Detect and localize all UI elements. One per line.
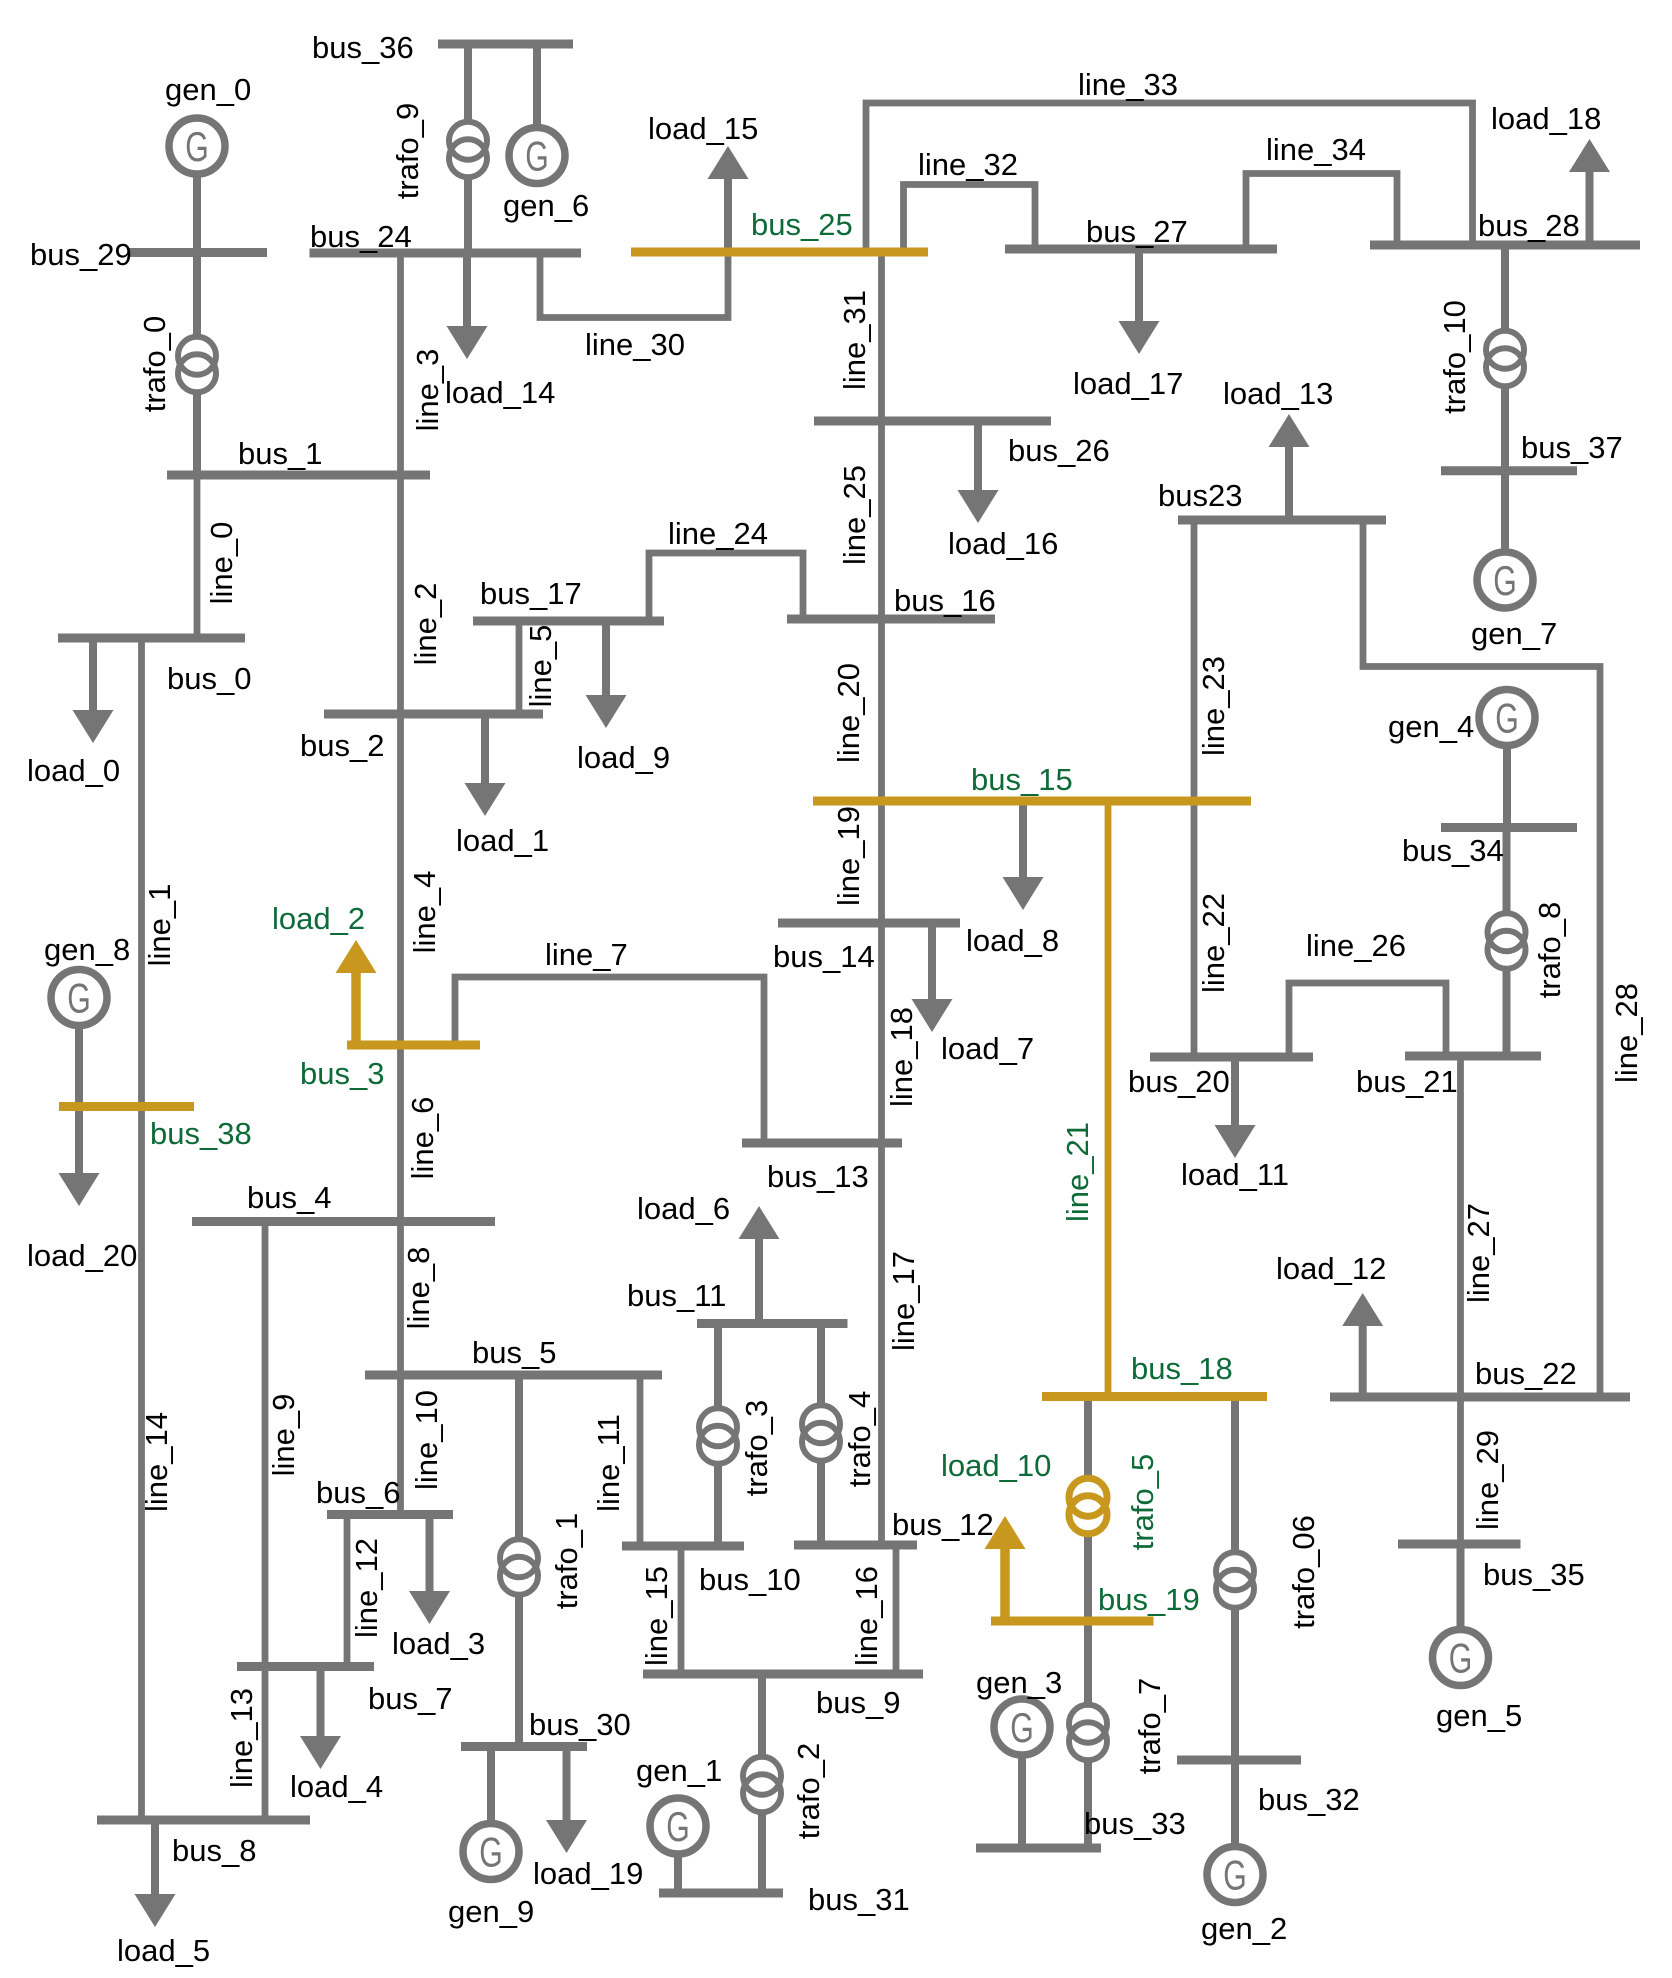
line line_22 bbox=[1194, 801, 1231, 1057]
load load_9 bbox=[577, 621, 670, 775]
svg-text:line_32: line_32 bbox=[918, 147, 1018, 182]
load load_2 bbox=[272, 901, 377, 1045]
svg-text:load_12: load_12 bbox=[1276, 1251, 1386, 1286]
svg-text:line_20: line_20 bbox=[831, 663, 866, 763]
svg-text:bus_35: bus_35 bbox=[1483, 1557, 1585, 1592]
svg-text:line_4: line_4 bbox=[407, 871, 442, 954]
transformer trafo_06 bbox=[1216, 1397, 1321, 1761]
bus bus_6 bbox=[316, 1475, 453, 1515]
svg-text:trafo_1: trafo_1 bbox=[549, 1513, 584, 1610]
load load_18 bbox=[1491, 101, 1610, 245]
load load_8 bbox=[966, 801, 1059, 958]
bus bus_7 bbox=[237, 1667, 452, 1717]
generator gen_9 bbox=[448, 1747, 534, 1930]
svg-text:G: G bbox=[1493, 557, 1517, 604]
svg-text:bus_2: bus_2 bbox=[300, 728, 384, 763]
generator gen_7 bbox=[1471, 471, 1557, 651]
bus bus_30 bbox=[461, 1707, 631, 1747]
load load_20 bbox=[27, 1107, 137, 1274]
svg-text:line_25: line_25 bbox=[837, 465, 872, 565]
line line_25 bbox=[837, 421, 882, 619]
bus bus_22 bbox=[1330, 1356, 1630, 1397]
line line_1 bbox=[142, 638, 178, 1106]
svg-text:bus_7: bus_7 bbox=[368, 1681, 452, 1716]
svg-text:line_30: line_30 bbox=[585, 327, 685, 362]
svg-text:bus_26: bus_26 bbox=[1008, 433, 1110, 468]
transformer trafo_7 bbox=[1069, 1621, 1167, 1848]
svg-text:G: G bbox=[1010, 1704, 1034, 1751]
svg-text:line_10: line_10 bbox=[409, 1390, 444, 1490]
bus bus_0 bbox=[58, 638, 251, 696]
line line_8 bbox=[401, 1222, 437, 1376]
line line_10 bbox=[401, 1375, 445, 1515]
svg-text:line_29: line_29 bbox=[1470, 1430, 1505, 1530]
load load_19 bbox=[533, 1747, 643, 1892]
svg-text:bus_10: bus_10 bbox=[699, 1562, 801, 1597]
bus bus_32 bbox=[1177, 1760, 1360, 1817]
svg-text:line_34: line_34 bbox=[1266, 132, 1366, 167]
svg-text:line_12: line_12 bbox=[349, 1538, 384, 1638]
line line_14 bbox=[139, 1106, 174, 1820]
generator gen_8 bbox=[44, 932, 130, 1107]
svg-text:line_19: line_19 bbox=[831, 806, 866, 906]
load load_12 bbox=[1276, 1251, 1386, 1396]
svg-text:line_7: line_7 bbox=[545, 937, 628, 972]
svg-text:bus_34: bus_34 bbox=[1402, 833, 1504, 868]
line line_27 bbox=[1461, 1056, 1497, 1397]
bus bus23 bbox=[1158, 478, 1386, 520]
bus bus_20 bbox=[1128, 1057, 1313, 1099]
line line_0 bbox=[197, 475, 239, 638]
bus bus_2 bbox=[300, 714, 543, 763]
bus bus_37 bbox=[1441, 430, 1623, 471]
bus bus_26 bbox=[814, 421, 1110, 468]
svg-text:trafo_06: trafo_06 bbox=[1286, 1515, 1321, 1629]
transformer trafo_1 bbox=[500, 1375, 584, 1747]
svg-text:G: G bbox=[1449, 1635, 1473, 1682]
svg-text:load_7: load_7 bbox=[941, 1031, 1034, 1066]
bus bus_28 bbox=[1370, 208, 1640, 245]
bus bus_19 bbox=[991, 1582, 1200, 1621]
svg-text:bus_9: bus_9 bbox=[816, 1685, 900, 1720]
svg-text:bus_28: bus_28 bbox=[1478, 208, 1580, 243]
generator gen_4 bbox=[1388, 690, 1535, 828]
svg-text:line_33: line_33 bbox=[1078, 67, 1178, 102]
load load_7 bbox=[912, 923, 1035, 1066]
line line_18 bbox=[882, 923, 920, 1143]
svg-text:bus_30: bus_30 bbox=[529, 1707, 631, 1742]
svg-text:gen_2: gen_2 bbox=[1201, 1911, 1287, 1946]
line line_30 bbox=[540, 252, 728, 362]
line line_21 bbox=[1060, 801, 1108, 1397]
generator gen_2 bbox=[1201, 1760, 1287, 1946]
bus bus_25 bbox=[631, 207, 928, 252]
svg-text:line_6: line_6 bbox=[405, 1097, 440, 1180]
svg-text:G: G bbox=[185, 123, 209, 170]
svg-text:line_2: line_2 bbox=[408, 583, 443, 666]
transformer trafo_5 bbox=[1069, 1397, 1160, 1621]
svg-text:line_23: line_23 bbox=[1196, 656, 1231, 756]
bus bus_12 bbox=[794, 1507, 994, 1545]
svg-text:gen_0: gen_0 bbox=[165, 72, 251, 107]
svg-text:bus_12: bus_12 bbox=[892, 1507, 994, 1542]
svg-text:line_27: line_27 bbox=[1461, 1203, 1496, 1303]
svg-text:bus_36: bus_36 bbox=[312, 30, 414, 65]
svg-text:bus_25: bus_25 bbox=[751, 207, 853, 242]
bus bus_17 bbox=[473, 576, 664, 621]
load load_13 bbox=[1223, 376, 1333, 521]
svg-text:trafo_9: trafo_9 bbox=[390, 103, 425, 200]
transformer trafo_8 bbox=[1488, 828, 1568, 1057]
line line_33 bbox=[866, 67, 1473, 252]
svg-text:load_2: load_2 bbox=[272, 901, 365, 936]
svg-text:bus_24: bus_24 bbox=[310, 219, 412, 254]
svg-text:bus_3: bus_3 bbox=[300, 1056, 384, 1091]
svg-text:load_4: load_4 bbox=[290, 1769, 383, 1804]
line line_20 bbox=[831, 619, 882, 801]
bus bus_18 bbox=[1042, 1351, 1267, 1397]
svg-text:bus_29: bus_29 bbox=[30, 237, 132, 272]
svg-text:line_14: line_14 bbox=[139, 1412, 174, 1512]
svg-text:line_28: line_28 bbox=[1609, 983, 1644, 1083]
svg-text:G: G bbox=[525, 133, 549, 180]
svg-text:gen_8: gen_8 bbox=[44, 932, 130, 967]
svg-text:bus_27: bus_27 bbox=[1086, 214, 1188, 249]
svg-text:line_0: line_0 bbox=[204, 522, 239, 605]
svg-text:load_15: load_15 bbox=[648, 111, 758, 146]
svg-text:gen_4: gen_4 bbox=[1388, 709, 1474, 744]
svg-text:bus_38: bus_38 bbox=[150, 1116, 252, 1151]
svg-text:bus_17: bus_17 bbox=[480, 576, 582, 611]
line line_4 bbox=[401, 714, 443, 1045]
svg-text:trafo_0: trafo_0 bbox=[137, 316, 172, 413]
load load_6 bbox=[637, 1191, 780, 1324]
svg-text:G: G bbox=[1223, 1852, 1247, 1899]
svg-text:bus_4: bus_4 bbox=[247, 1180, 331, 1215]
load load_0 bbox=[27, 638, 120, 788]
bus bus_35 bbox=[1398, 1544, 1585, 1592]
svg-text:trafo_3: trafo_3 bbox=[739, 1400, 774, 1497]
bus bus_14 bbox=[773, 923, 960, 974]
load load_17 bbox=[1073, 249, 1183, 401]
svg-text:gen_6: gen_6 bbox=[503, 188, 589, 223]
bus bus_38 bbox=[59, 1107, 252, 1152]
svg-text:load_14: load_14 bbox=[445, 375, 555, 410]
svg-text:bus23: bus23 bbox=[1158, 478, 1242, 513]
bus bus_33 bbox=[976, 1806, 1186, 1848]
svg-text:load_6: load_6 bbox=[637, 1191, 730, 1226]
svg-text:G: G bbox=[67, 975, 91, 1022]
line line_13 bbox=[224, 1667, 265, 1821]
svg-text:bus_20: bus_20 bbox=[1128, 1064, 1230, 1099]
svg-text:bus_33: bus_33 bbox=[1084, 1806, 1186, 1841]
bus bus_24 bbox=[310, 219, 582, 254]
load load_15 bbox=[648, 111, 758, 252]
svg-text:G: G bbox=[1495, 695, 1519, 742]
svg-text:load_16: load_16 bbox=[948, 526, 1058, 561]
svg-text:trafo_10: trafo_10 bbox=[1437, 300, 1472, 414]
svg-text:load_3: load_3 bbox=[392, 1626, 485, 1661]
transformer trafo_10 bbox=[1437, 246, 1524, 471]
transformer trafo_4 bbox=[802, 1324, 877, 1546]
bus bus_5 bbox=[365, 1335, 662, 1375]
bus bus_9 bbox=[643, 1674, 923, 1720]
svg-text:load_1: load_1 bbox=[456, 823, 549, 858]
svg-text:bus_16: bus_16 bbox=[894, 583, 996, 618]
svg-text:trafo_7: trafo_7 bbox=[1132, 1678, 1167, 1775]
svg-text:gen_9: gen_9 bbox=[448, 1894, 534, 1929]
svg-text:bus_0: bus_0 bbox=[167, 661, 251, 696]
generator gen_1 bbox=[636, 1753, 722, 1893]
bus bus_8 bbox=[97, 1820, 310, 1868]
svg-text:line_21: line_21 bbox=[1060, 1122, 1095, 1222]
bus bus_16 bbox=[787, 583, 996, 619]
line line_7 bbox=[455, 937, 764, 1143]
bus bus_34 bbox=[1402, 828, 1577, 869]
line line_23 bbox=[1194, 520, 1231, 801]
bus bus_3 bbox=[300, 1045, 480, 1091]
generator gen_6 bbox=[503, 45, 589, 223]
transformer trafo_2 bbox=[743, 1674, 826, 1893]
line line_12 bbox=[347, 1515, 384, 1667]
bus bus_13 bbox=[742, 1143, 902, 1194]
load load_16 bbox=[948, 421, 1058, 561]
line line_9 bbox=[265, 1222, 301, 1667]
svg-text:G: G bbox=[479, 1829, 503, 1876]
svg-text:load_11: load_11 bbox=[1181, 1157, 1289, 1192]
svg-text:load_8: load_8 bbox=[966, 923, 1059, 958]
svg-text:load_10: load_10 bbox=[941, 1448, 1051, 1483]
svg-text:line_16: line_16 bbox=[849, 1566, 884, 1666]
svg-text:trafo_2: trafo_2 bbox=[791, 1743, 826, 1840]
bus bus_31 bbox=[659, 1882, 910, 1917]
bus bus_21 bbox=[1356, 1056, 1541, 1099]
svg-text:bus_6: bus_6 bbox=[316, 1475, 400, 1510]
bus bus_4 bbox=[192, 1180, 495, 1222]
svg-text:bus_1: bus_1 bbox=[238, 436, 322, 471]
line line_6 bbox=[401, 1045, 441, 1222]
svg-text:line_24: line_24 bbox=[668, 516, 768, 551]
line line_11 bbox=[591, 1375, 640, 1546]
svg-text:bus_13: bus_13 bbox=[767, 1159, 869, 1194]
svg-text:bus_21: bus_21 bbox=[1356, 1064, 1458, 1099]
svg-text:load_9: load_9 bbox=[577, 740, 670, 775]
svg-text:bus_31: bus_31 bbox=[808, 1882, 910, 1917]
svg-text:bus_32: bus_32 bbox=[1258, 1782, 1360, 1817]
bus bus_36 bbox=[312, 30, 573, 65]
generator gen_5 bbox=[1433, 1544, 1523, 1733]
svg-text:gen_5: gen_5 bbox=[1436, 1698, 1522, 1733]
line line_34 bbox=[1246, 132, 1397, 249]
svg-text:load_17: load_17 bbox=[1073, 366, 1183, 401]
svg-text:line_5: line_5 bbox=[523, 625, 558, 708]
transformer trafo_3 bbox=[699, 1324, 774, 1547]
svg-text:bus_15: bus_15 bbox=[971, 762, 1073, 797]
bus bus_29 bbox=[30, 237, 267, 272]
svg-text:load_18: load_18 bbox=[1491, 101, 1601, 136]
line line_5 bbox=[519, 621, 558, 714]
bus bus_10 bbox=[622, 1546, 801, 1597]
bus bus_11 bbox=[627, 1278, 848, 1324]
line line_24 bbox=[649, 516, 803, 621]
line line_28 bbox=[1363, 521, 1644, 1396]
svg-text:line_22: line_22 bbox=[1196, 893, 1231, 993]
transformer trafo_9 bbox=[390, 45, 487, 253]
bus bus_27 bbox=[1005, 214, 1277, 249]
line line_19 bbox=[831, 801, 882, 923]
svg-text:bus_19: bus_19 bbox=[1098, 1582, 1200, 1617]
svg-text:line_8: line_8 bbox=[401, 1247, 436, 1330]
svg-text:load_5: load_5 bbox=[117, 1933, 210, 1968]
load load_10 bbox=[941, 1448, 1051, 1621]
svg-text:line_17: line_17 bbox=[886, 1251, 921, 1351]
svg-text:gen_3: gen_3 bbox=[976, 1665, 1062, 1700]
svg-text:trafo_4: trafo_4 bbox=[842, 1391, 877, 1488]
line line_26 bbox=[1289, 928, 1446, 1057]
svg-text:line_18: line_18 bbox=[884, 1007, 919, 1107]
svg-text:load_13: load_13 bbox=[1223, 376, 1333, 411]
svg-text:gen_7: gen_7 bbox=[1471, 616, 1557, 651]
transformer trafo_0 bbox=[137, 253, 216, 476]
load load_4 bbox=[290, 1667, 383, 1805]
line line_3 bbox=[401, 253, 446, 475]
svg-text:line_9: line_9 bbox=[266, 1394, 301, 1477]
load load_11 bbox=[1181, 1057, 1289, 1192]
svg-text:trafo_8: trafo_8 bbox=[1532, 902, 1567, 999]
svg-text:bus_14: bus_14 bbox=[773, 939, 875, 974]
svg-text:line_31: line_31 bbox=[837, 290, 872, 390]
generator gen_0 bbox=[165, 72, 251, 253]
load load_3 bbox=[392, 1515, 485, 1662]
svg-text:line_3: line_3 bbox=[410, 349, 445, 432]
line line_16 bbox=[849, 1545, 896, 1674]
svg-text:line_1: line_1 bbox=[142, 884, 177, 967]
svg-text:bus_11: bus_11 bbox=[627, 1278, 726, 1313]
svg-text:bus_22: bus_22 bbox=[1475, 1356, 1577, 1391]
svg-text:load_0: load_0 bbox=[27, 753, 120, 788]
load load_5 bbox=[117, 1820, 210, 1968]
svg-text:G: G bbox=[666, 1803, 690, 1850]
svg-text:bus_5: bus_5 bbox=[472, 1335, 556, 1370]
bus bus_1 bbox=[167, 436, 430, 475]
svg-text:bus_37: bus_37 bbox=[1521, 430, 1623, 465]
line line_29 bbox=[1461, 1397, 1506, 1544]
svg-text:load_20: load_20 bbox=[27, 1238, 137, 1273]
line line_2 bbox=[401, 475, 444, 714]
bus bus_15 bbox=[813, 762, 1251, 801]
svg-text:line_26: line_26 bbox=[1306, 928, 1406, 963]
load load_1 bbox=[456, 714, 549, 858]
svg-text:line_15: line_15 bbox=[639, 1566, 674, 1666]
svg-text:load_19: load_19 bbox=[533, 1856, 643, 1891]
line line_31 bbox=[837, 252, 882, 421]
svg-text:bus_18: bus_18 bbox=[1131, 1351, 1233, 1386]
generator gen_3 bbox=[976, 1665, 1062, 1848]
load load_14 bbox=[445, 253, 555, 410]
line line_17 bbox=[882, 1143, 922, 1545]
svg-text:gen_1: gen_1 bbox=[636, 1753, 722, 1788]
svg-text:line_11: line_11 bbox=[591, 1414, 626, 1512]
svg-text:trafo_5: trafo_5 bbox=[1125, 1454, 1160, 1551]
svg-text:line_13: line_13 bbox=[224, 1688, 259, 1788]
line line_15 bbox=[639, 1546, 681, 1674]
line line_32 bbox=[904, 147, 1036, 252]
svg-text:bus_8: bus_8 bbox=[172, 1833, 256, 1868]
